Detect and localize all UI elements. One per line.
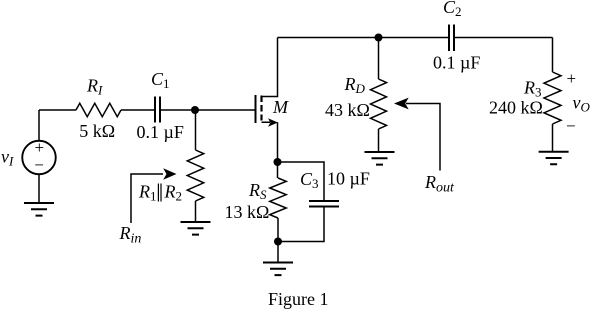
ground under RD <box>365 152 395 165</box>
resistor R3 zigzag <box>544 72 561 124</box>
voltage source vI circle <box>22 141 56 175</box>
wire: R3 to ground <box>552 124 554 152</box>
wire: R3 vertical lead <box>552 38 554 73</box>
wire: C3 bottom branch <box>278 208 324 242</box>
transistor M gate bar <box>255 95 257 123</box>
wire: RD to ground <box>378 129 380 152</box>
wire: top rail drain to C2 <box>278 37 449 39</box>
junction dot source node top <box>274 158 282 166</box>
svg-text:M: M <box>272 97 289 117</box>
junction dot source node bottom <box>274 238 282 246</box>
capacitor C2 plates <box>449 25 454 52</box>
wire: input rail from source top corner to C1 left plate <box>39 109 154 111</box>
wire: vI source vertical leads <box>38 110 40 203</box>
svg-text:10 µF: 10 µF <box>327 169 370 189</box>
junction dot drain rail node <box>375 34 383 42</box>
wire: source node to RS <box>277 162 279 178</box>
wire: RS to bottom node and ground <box>277 218 279 263</box>
wire: C1 to MOSFET gate <box>161 109 255 111</box>
arrowhead Rout pointer <box>394 98 409 110</box>
svg-text:vO: vO <box>573 93 590 115</box>
wire: R1||R2 branch from gate node <box>195 110 197 150</box>
arrowhead Rin pointer <box>163 168 176 179</box>
svg-text:RI: RI <box>86 76 103 98</box>
svg-text:RD: RD <box>344 74 366 96</box>
transistor M source lead <box>262 122 278 162</box>
ground under vI <box>24 203 54 216</box>
svg-text:RS: RS <box>248 180 267 202</box>
capacitor C3 plates <box>309 201 339 207</box>
wire: C3 top branch <box>278 162 325 200</box>
svg-text:Figure 1: Figure 1 <box>268 289 329 309</box>
resistor RD zigzag <box>371 79 387 129</box>
svg-text:C2: C2 <box>443 0 462 19</box>
capacitor C1 plates <box>155 97 160 123</box>
svg-text:C1: C1 <box>151 69 170 91</box>
svg-text:+: + <box>35 138 45 157</box>
wire: R1||R2 to ground <box>195 201 197 222</box>
svg-text:−: − <box>34 156 44 175</box>
ground under R1||R2 <box>181 222 211 235</box>
svg-text:R1: R1 <box>138 182 157 204</box>
svg-text:R3: R3 <box>523 78 542 100</box>
svg-text:13 kΩ: 13 kΩ <box>225 202 270 222</box>
svg-text:43 kΩ: 43 kΩ <box>325 100 370 120</box>
svg-text:R2: R2 <box>164 182 183 204</box>
svg-text:Rout: Rout <box>424 172 455 196</box>
arrow pointer for Rout <box>406 104 440 171</box>
arrow pointer for R1||R2 <box>131 174 163 223</box>
svg-text:+: + <box>567 69 577 88</box>
transistor M channel (dashed) <box>260 96 262 121</box>
svg-text:0.1 µF: 0.1 µF <box>137 122 184 142</box>
resistor RS zigzag <box>270 178 287 218</box>
wire: C2 to R3 top <box>455 37 553 39</box>
junction dot gate node <box>191 106 199 114</box>
svg-text:Rin: Rin <box>119 223 142 247</box>
svg-text:5 kΩ: 5 kΩ <box>79 121 115 141</box>
svg-text:0.1 µF: 0.1 µF <box>433 53 480 73</box>
transistor M drain lead <box>262 38 278 97</box>
arrowhead MOSFET source <box>268 118 278 126</box>
ground under RS <box>263 263 293 276</box>
svg-text:240 kΩ: 240 kΩ <box>489 98 543 118</box>
svg-text:vI: vI <box>1 147 14 169</box>
ground under R3 <box>539 152 569 165</box>
svg-text:−: − <box>566 117 576 136</box>
resistor R1||R2 zigzag <box>187 150 204 201</box>
svg-text:C3: C3 <box>300 169 319 191</box>
resistor RI zigzag <box>76 103 121 117</box>
wire: RD branch from top rail <box>378 38 380 80</box>
